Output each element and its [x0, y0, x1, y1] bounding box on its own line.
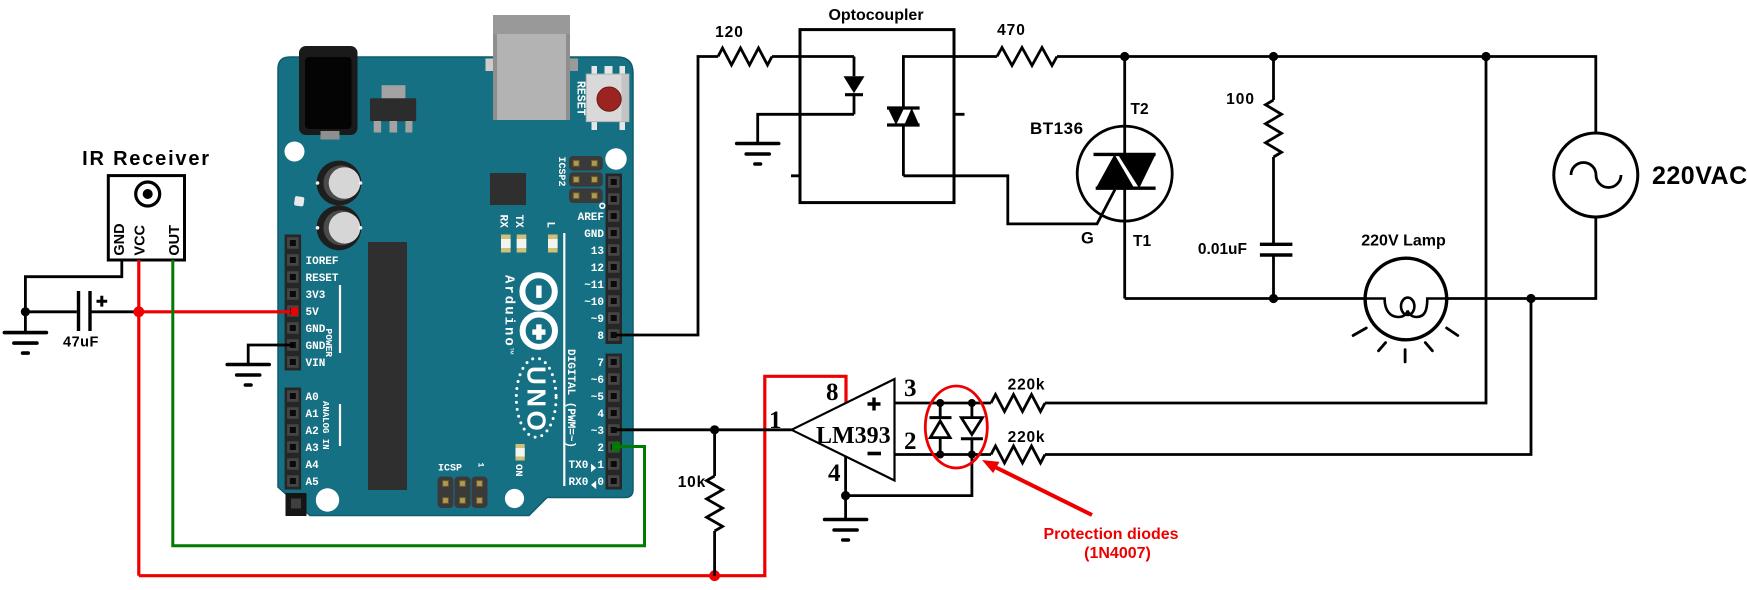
wire: pin 8 to 120 resistor: [616, 57, 718, 336]
svg-text:2: 2: [904, 428, 917, 455]
silkscreen dot: [600, 203, 605, 208]
svg-text:A4: A4: [306, 460, 320, 472]
svg-text:Protection diodes: Protection diodes: [1043, 526, 1178, 543]
svg-text:8: 8: [597, 331, 604, 343]
ICSP2 header: [569, 156, 603, 203]
digital pin labels: [578, 212, 605, 455]
svg-text:™: ™: [506, 347, 515, 355]
plus input mark: [868, 398, 881, 411]
wire: bottom AC rail: [1125, 217, 1596, 299]
capacitor 0.01uF: [1260, 157, 1293, 299]
svg-text:A1: A1: [306, 409, 320, 421]
Arduino logo: [522, 275, 555, 347]
optocoupler U1 box: [800, 30, 954, 203]
silkscreen lines: [340, 233, 564, 486]
USB interface chip: [490, 173, 526, 205]
svg-text:ANALOG IN: ANALOG IN: [320, 401, 330, 450]
resistor 10k: [713, 430, 716, 576]
220VAC source: [1554, 133, 1638, 217]
svg-text:0.01uF: 0.01uF: [1198, 241, 1247, 258]
analog pin header: [285, 388, 302, 490]
svg-text:220VAC: 220VAC: [1652, 162, 1747, 190]
svg-text:GND: GND: [306, 324, 326, 336]
wire: top AC rail: [1057, 57, 1596, 134]
op-amp LM393: [792, 379, 895, 481]
wire: IR GND to ground and capacitor: [25, 260, 121, 333]
protection diode D1: [930, 403, 952, 455]
svg-text:BT136: BT136: [1030, 119, 1084, 138]
svg-text:10k: 10k: [678, 474, 706, 491]
electrolytic capacitor C2 on board: [316, 205, 363, 250]
node: GND/cap junction: [21, 307, 30, 316]
svg-text:4: 4: [828, 460, 841, 487]
lamp: [1365, 258, 1447, 340]
svg-text:RESET: RESET: [306, 273, 339, 285]
svg-text:L: L: [544, 222, 556, 229]
svg-text:TX: TX: [512, 215, 524, 229]
svg-text:0: 0: [597, 477, 604, 489]
svg-text:220V Lamp: 220V Lamp: [1361, 233, 1446, 250]
node: sense top junction: [1481, 52, 1490, 61]
svg-text:TX0: TX0: [569, 460, 589, 472]
triac BT136: [1077, 57, 1172, 299]
svg-text:1: 1: [597, 460, 604, 472]
svg-text:DIGITAL (PWM=~): DIGITAL (PWM=~): [564, 349, 576, 448]
svg-text:~6: ~6: [591, 375, 604, 387]
svg-text:LM393: LM393: [816, 423, 891, 449]
bottom left header part: [286, 493, 307, 516]
TX RX L LEDs: [501, 235, 558, 253]
svg-text:GND: GND: [584, 229, 604, 241]
svg-text:1: 1: [476, 463, 485, 468]
svg-text:~10: ~10: [584, 297, 604, 309]
wire: plus input sense: [895, 57, 1487, 404]
wire: green OUT to pin 2: [173, 260, 645, 546]
small SMD part: [294, 196, 305, 207]
protection diode D2: [961, 403, 983, 455]
electrolytic capacitor C1 on board: [316, 161, 363, 206]
annotation arrow: [982, 460, 1092, 515]
node: 10k junction: [710, 425, 719, 434]
Arduino power jack: [299, 46, 358, 140]
optocoupler phototriac: [887, 57, 954, 176]
svg-text:13: 13: [591, 246, 605, 258]
svg-text:T1: T1: [1133, 233, 1151, 250]
svg-text:12: 12: [591, 263, 604, 275]
svg-text:RESET: RESET: [574, 81, 587, 116]
pin 2 terminal: [612, 442, 621, 451]
optocoupler LED diode: [844, 57, 865, 115]
svg-text:ICSP: ICSP: [438, 464, 462, 475]
wire: opto to 470 resistor: [954, 55, 997, 58]
svg-text:VCC: VCC: [133, 224, 149, 255]
svg-text:ICSP2: ICSP2: [555, 157, 566, 187]
svg-text:GND: GND: [306, 341, 326, 353]
node: T2 junction: [1120, 52, 1129, 61]
Arduino reset button: [586, 66, 629, 130]
ground: [737, 144, 779, 165]
svg-text:100: 100: [1226, 91, 1255, 108]
svg-text:7: 7: [597, 358, 604, 370]
svg-text:ON: ON: [512, 464, 524, 477]
svg-text:T2: T2: [1131, 101, 1149, 118]
node: 10k to 5V junction: [709, 570, 720, 581]
Arduino Uno board: [278, 57, 633, 516]
svg-text:(1N4007): (1N4007): [1084, 545, 1151, 562]
node: snubber bottom junction: [1269, 294, 1278, 303]
voltage regulator: [370, 85, 416, 132]
svg-text:G: G: [1081, 230, 1094, 248]
svg-text:Arduino: Arduino: [501, 275, 517, 348]
UNO badge: [516, 358, 556, 437]
node: pin4 junction: [841, 491, 850, 500]
svg-text:POWER: POWER: [323, 329, 334, 358]
minus input mark: [868, 452, 882, 456]
wire: resistor to optocoupler LED: [772, 55, 854, 58]
svg-text:8: 8: [826, 379, 839, 406]
svg-text:~3: ~3: [591, 426, 605, 438]
wire: red 5V rail: [139, 260, 846, 576]
digital pin header upper: [606, 174, 623, 345]
node: snubber top junction: [1269, 52, 1278, 61]
svg-text:RX0: RX0: [569, 477, 589, 489]
svg-text:1: 1: [769, 407, 782, 434]
svg-text:~11: ~11: [584, 280, 604, 292]
IR receiver module: [108, 176, 184, 260]
ON LED: [516, 444, 525, 461]
svg-text:AREF: AREF: [578, 212, 604, 224]
node: diode junctions: [936, 399, 976, 459]
resistor 220k upper: [991, 395, 1045, 412]
ICSP header: [438, 477, 488, 509]
power pin labels: [306, 256, 339, 370]
svg-text:120: 120: [715, 24, 744, 41]
5V pin terminal: [291, 307, 298, 315]
Arduino USB connector: [486, 15, 579, 120]
svg-text:A2: A2: [306, 426, 319, 438]
svg-text:A5: A5: [306, 477, 320, 489]
svg-text:3V3: 3V3: [306, 290, 326, 302]
capacitor 47uF: [25, 291, 136, 331]
wire: pin 3 output to Arduino: [616, 428, 792, 431]
svg-text:UNO: UNO: [522, 366, 552, 434]
power pin header: [285, 235, 302, 371]
ATmega328 DIP chip: [368, 242, 407, 490]
wire: opto to triac gate: [903, 176, 1115, 224]
analog pin labels: [306, 392, 320, 489]
svg-text:~5: ~5: [591, 392, 605, 404]
wire: Arduino GND to ground: [248, 345, 294, 365]
svg-text:OUT: OUT: [167, 225, 183, 256]
svg-text:IOREF: IOREF: [306, 256, 339, 268]
resistor 120: [718, 48, 772, 65]
resistor 220k lower: [991, 446, 1045, 463]
node: VCC junction: [133, 306, 144, 317]
optocoupler pin stubs: [791, 114, 965, 176]
resistor 470: [997, 48, 1057, 66]
node: sense bottom junction: [1526, 294, 1535, 303]
ground: [4, 333, 46, 354]
svg-text:RX: RX: [497, 215, 509, 229]
svg-text:A3: A3: [306, 443, 320, 455]
svg-text:4: 4: [597, 409, 604, 421]
svg-text:IR Receiver: IR Receiver: [82, 148, 211, 170]
svg-text:2: 2: [597, 443, 604, 455]
svg-text:220k: 220k: [1008, 377, 1046, 394]
RX0 0 pin label: [569, 477, 605, 489]
svg-text:5V: 5V: [306, 307, 320, 319]
mounting holes: [285, 142, 627, 512]
ground: [825, 520, 867, 541]
svg-text:GND: GND: [112, 223, 128, 255]
wire: minus input sense: [895, 299, 1532, 455]
svg-text:Optocoupler: Optocoupler: [828, 7, 923, 24]
svg-text:47uF: 47uF: [63, 335, 99, 351]
svg-text:VIN: VIN: [306, 358, 326, 370]
digital pin header lower: [606, 354, 623, 490]
ground: [227, 365, 269, 386]
resistor 100: [1272, 57, 1275, 101]
svg-text:470: 470: [997, 22, 1026, 39]
TX0 1 pin label: [569, 460, 605, 472]
svg-text:220k: 220k: [1008, 429, 1046, 446]
wire: pin 4 to ground and diodes: [846, 455, 972, 520]
wire: LED cathode to ground: [758, 114, 854, 143]
lamp rays: [1353, 328, 1458, 362]
highlight ellipse around diodes: [925, 386, 987, 468]
svg-text:3: 3: [904, 375, 917, 402]
svg-text:~9: ~9: [591, 314, 604, 326]
svg-text:A0: A0: [306, 392, 319, 404]
